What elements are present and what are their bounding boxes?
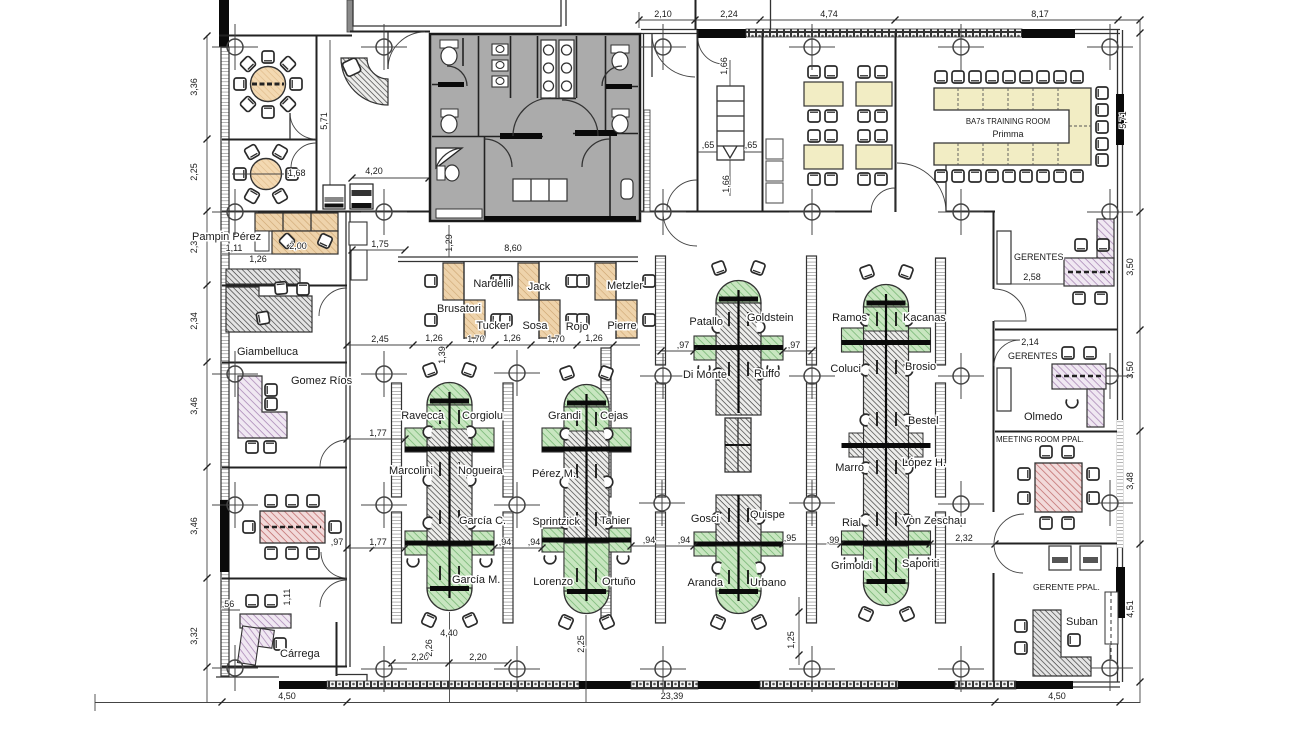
wall top of right block [641, 33, 1120, 35]
classroom side cabinets [766, 139, 783, 203]
dimension row cluster3 [658, 340, 816, 355]
svg-text:Metzler: Metzler [607, 280, 643, 292]
dimension 1,75 below reception [352, 249, 405, 251]
dimension 4,20 reception [352, 177, 429, 179]
svg-text:Corgiolu: Corgiolu [462, 410, 503, 422]
svg-text:Grandi: Grandi [548, 410, 581, 422]
svg-text:1,26: 1,26 [503, 333, 521, 343]
desk divider ticks clusters3-4 [729, 312, 748, 584]
svg-text:,95: ,95 [784, 533, 797, 543]
reception curved desk [341, 58, 388, 105]
door arc gerente ppal [994, 544, 1023, 573]
dimension line right [1118, 20, 1144, 703]
svg-text:4,51: 4,51 [1125, 600, 1135, 618]
svg-text:1,11: 1,11 [226, 243, 243, 253]
svg-text:Goldstein: Goldstein [747, 312, 793, 324]
reception chair [342, 57, 362, 77]
svg-text:Aranda: Aranda [688, 577, 724, 589]
bottom-left vestibule walls [336, 622, 338, 676]
room above bathroom (walls) [353, 0, 561, 26]
wall between round-table rooms [222, 139, 316, 141]
svg-text:,97: ,97 [677, 340, 690, 350]
svg-text:4,74: 4,74 [820, 9, 838, 19]
svg-text:Saporiti: Saporiti [902, 558, 939, 570]
svg-text:2,25: 2,25 [576, 635, 586, 653]
svg-text:Suban: Suban [1066, 616, 1098, 628]
svg-text:Jack: Jack [528, 281, 551, 293]
svg-text:Ruffo: Ruffo [754, 368, 780, 380]
svg-text:Urbano: Urbano [750, 577, 786, 589]
wall stub above reception [347, 0, 353, 32]
wall top of reception [350, 31, 430, 33]
wall right of round-table rooms [316, 35, 318, 211]
partition strip s4 [656, 256, 666, 623]
svg-text:,65: ,65 [745, 140, 758, 150]
svg-text:Rial: Rial [842, 517, 861, 529]
svg-text:1,70: 1,70 [467, 334, 485, 344]
wall cabinet room / classroom [762, 33, 764, 212]
svg-text:Sprintzick: Sprintzick [532, 516, 580, 528]
svg-text:1,70: 1,70 [547, 334, 565, 344]
svg-text:1,39: 1,39 [437, 346, 447, 364]
tan desk group C (Metzler/Rojo/Pierre) [577, 262, 655, 339]
toilet 4 [612, 109, 629, 133]
tan desk group A (Brusatori/Tucker) [425, 262, 503, 339]
door arc Gomez Rios [320, 440, 347, 467]
svg-text:,56: ,56 [222, 599, 235, 609]
svg-text:,65: ,65 [702, 140, 715, 150]
hall upper dimension double line 8,60 [398, 225, 638, 262]
office gerentes1 [997, 219, 1114, 304]
svg-text:2,45: 2,45 [371, 334, 389, 344]
partition strip s1 [392, 383, 402, 623]
classroom tables [804, 66, 892, 185]
svg-text:Lorenzo: Lorenzo [533, 576, 573, 588]
svg-text:Nogueira: Nogueira [458, 465, 504, 477]
door arc meeting room [994, 514, 1024, 544]
svg-text:Von Zeschau: Von Zeschau [902, 515, 966, 527]
wall right black segment bottom [1116, 567, 1125, 618]
partition strip s2 [503, 383, 513, 623]
svg-text:Ortuño: Ortuño [602, 576, 636, 588]
small toilet bottom-left [437, 165, 459, 181]
svg-text:Patallo: Patallo [689, 316, 723, 328]
bottom left strip [436, 209, 482, 218]
svg-text:Tucker: Tucker [476, 320, 510, 332]
svg-text:1,77: 1,77 [369, 428, 387, 438]
wall left black segment (pink room) [220, 500, 229, 572]
wall meeting/gerente ppal [995, 543, 1117, 545]
door arc room B top [291, 143, 316, 168]
svg-text:3,46: 3,46 [189, 517, 199, 535]
svg-text:Coluci: Coluci [830, 363, 861, 375]
dimension line bottom [95, 691, 1140, 711]
svg-text:Ramos: Ramos [832, 312, 867, 324]
meeting room ppal [996, 435, 1099, 529]
svg-text:1,26: 1,26 [585, 333, 603, 343]
svg-text:Quispe: Quispe [750, 509, 785, 521]
svg-text:8,17: 8,17 [1031, 9, 1049, 19]
svg-text:4,50: 4,50 [278, 691, 296, 701]
central cabinet pair [725, 418, 751, 472]
svg-text:,94: ,94 [678, 535, 691, 545]
office Giambelluca cabinets [226, 269, 300, 284]
svg-text:GERENTES: GERENTES [1014, 252, 1064, 262]
desk divider ticks cluster5 [877, 312, 896, 572]
svg-text:Olmedo: Olmedo [1024, 411, 1063, 423]
toilet 3 [611, 45, 629, 70]
dimension 1,77 row Gomez [344, 428, 409, 443]
svg-text:Pérez M.: Pérez M. [532, 468, 576, 480]
bottom counter [513, 179, 567, 201]
wall stubs above entry corridor [695, 0, 697, 30]
tan desk names [437, 278, 643, 333]
wall left exterior (ladder hatch) [221, 47, 229, 676]
svg-text:Rojo: Rojo [566, 321, 589, 333]
svg-text:5,71: 5,71 [1118, 111, 1128, 129]
wall bottom run [216, 676, 279, 678]
svg-text:Bestel: Bestel [908, 415, 939, 427]
wall left-offices right side [345, 211, 347, 667]
door arc corridor bottom [667, 180, 697, 210]
svg-text:García M.: García M. [452, 574, 500, 586]
dimension line top [636, 9, 1144, 28]
wall GomezRios/pink room [222, 467, 347, 469]
svg-text:2,20: 2,20 [469, 652, 487, 662]
svg-text:Cárrega: Cárrega [280, 648, 321, 660]
wall olmedo/meeting [995, 431, 1117, 433]
svg-text:GERENTES: GERENTES [1008, 351, 1058, 361]
toilet 1 [440, 40, 458, 65]
svg-text:2,10: 2,10 [654, 9, 672, 19]
door arc classroom [871, 188, 895, 212]
door arc Carrega [320, 580, 347, 607]
svg-text:3,48: 3,48 [1125, 472, 1135, 490]
door arc cabinet room [698, 38, 724, 64]
partition strip s3 [601, 348, 611, 623]
svg-text:Pampin Pérez: Pampin Pérez [192, 231, 261, 243]
svg-text:Gomez Ríos: Gomez Ríos [291, 375, 353, 387]
svg-text:Tahier: Tahier [600, 515, 630, 527]
bathroom bottom wall band [484, 216, 636, 221]
door arc entry corridor [652, 34, 695, 77]
svg-text:García C.: García C. [459, 515, 506, 527]
wall entry corridor left [643, 34, 645, 212]
svg-text:Primma: Primma [993, 129, 1024, 139]
svg-text:2,14: 2,14 [1021, 337, 1039, 347]
wall Pampin/Giambelluca [222, 285, 347, 287]
wall top-right black segment 1 [697, 29, 746, 38]
door arc pink room [321, 552, 347, 578]
svg-text:4,40: 4,40 [440, 628, 458, 638]
svg-text:,94: ,94 [528, 537, 541, 547]
wall right offices left side [993, 212, 995, 289]
svg-text:,94: ,94 [643, 535, 656, 545]
bottom right fixture [621, 179, 633, 199]
hall-side cabinets near Pampin [349, 222, 367, 245]
shower corner [436, 148, 462, 168]
pink meeting table room [243, 495, 341, 559]
dimension row mid hall [331, 533, 999, 552]
wall top-right black segment 2 [1022, 29, 1075, 38]
svg-text:4,50: 4,50 [1048, 691, 1066, 701]
svg-text:5,71: 5,71 [319, 112, 329, 130]
cabinet column room [698, 57, 762, 196]
door arc room A [290, 113, 316, 139]
svg-text:Di Monte: Di Monte [683, 369, 727, 381]
wall right exterior [1117, 30, 1119, 682]
svg-text:3,46: 3,46 [189, 397, 199, 415]
wall Carrega bottom [222, 666, 347, 668]
svg-text:Brusatori: Brusatori [437, 303, 481, 315]
cluster names [389, 312, 966, 589]
wire top-left thick wall segment [219, 0, 229, 47]
training room chairs right [1096, 87, 1108, 166]
svg-text:2,00: 2,00 [289, 241, 307, 251]
wall top of left block [219, 35, 352, 37]
desk divider ticks cluster2 [577, 412, 596, 582]
office olmedo [997, 337, 1106, 427]
svg-text:1,11: 1,11 [282, 589, 292, 606]
bathroom internal walls [432, 36, 638, 219]
svg-text:,97: ,97 [331, 537, 344, 547]
svg-text:1,26: 1,26 [425, 333, 443, 343]
svg-text:Cejas: Cejas [600, 410, 629, 422]
bathroom black wall bands [438, 82, 464, 87]
office gerente ppal [1015, 546, 1118, 676]
svg-text:1,25: 1,25 [786, 631, 796, 649]
desk cluster 3 [694, 260, 783, 415]
door arc olmedo [994, 340, 1020, 366]
svg-text:1,66: 1,66 [721, 175, 731, 193]
svg-text:Giambelluca: Giambelluca [237, 346, 299, 358]
svg-text:MEETING ROOM PPAL.: MEETING ROOM PPAL. [996, 435, 1084, 444]
grid markers [212, 24, 1133, 692]
svg-text:1,68: 1,68 [288, 168, 306, 178]
svg-text:2,26: 2,26 [424, 639, 434, 657]
svg-text:1,26: 1,26 [249, 254, 267, 264]
desk divider ticks cluster1 [440, 410, 459, 580]
training room chairs bottom [935, 170, 1083, 182]
office Gomez Rios desk [238, 376, 287, 438]
svg-text:,99: ,99 [827, 535, 840, 545]
door arc training room [897, 163, 946, 212]
wall classroom / training room [895, 33, 897, 212]
door arc gerentes1 [994, 289, 1026, 321]
svg-text:Marro: Marro [835, 462, 864, 474]
sink columns [541, 40, 574, 98]
desk cluster 1 [405, 362, 494, 628]
svg-text:Pierre: Pierre [607, 320, 636, 332]
svg-text:3,32: 3,32 [189, 627, 199, 645]
svg-text:,97: ,97 [788, 340, 801, 350]
svg-text:Grimoldi: Grimoldi [831, 560, 872, 572]
round table room A [234, 51, 302, 118]
wall right hatch segment [1117, 420, 1123, 548]
partition strip s5 [807, 256, 817, 623]
wall right black segment top [1116, 94, 1124, 145]
svg-text:Brosio: Brosio [905, 361, 936, 373]
wall top-right insulated band [746, 29, 1022, 37]
desk cluster 5 [842, 264, 931, 622]
door arc Giambelluca [319, 288, 347, 316]
desk cluster 2 [542, 365, 631, 630]
dimension 5,71 vertical (reception) [329, 40, 331, 208]
svg-text:1,66: 1,66 [719, 57, 729, 75]
round table room B [232, 144, 306, 204]
svg-text:Ravecca: Ravecca [401, 410, 445, 422]
wall corridor rows y212 [222, 211, 430, 213]
svg-text:1,75: 1,75 [371, 239, 389, 249]
wall entry corridor right / cabinet room left [697, 30, 699, 212]
training room U table [934, 88, 1091, 165]
wall pink room/Carrega [222, 578, 347, 580]
svg-text:3,50: 3,50 [1125, 258, 1135, 276]
svg-text:23,39: 23,39 [661, 691, 684, 701]
bathroom door arcs [447, 66, 622, 167]
reception cabinets (servers) [323, 184, 373, 209]
svg-text:8,60: 8,60 [504, 243, 522, 253]
svg-text:1,77: 1,77 [369, 537, 387, 547]
svg-text:2,24: 2,24 [720, 9, 738, 19]
toilet 2 [441, 109, 458, 133]
svg-text:3,36: 3,36 [189, 78, 199, 96]
svg-text:2,58: 2,58 [1023, 272, 1041, 282]
dimension line left [189, 33, 211, 704]
bathroom block base [430, 34, 640, 221]
svg-text:2,32: 2,32 [955, 533, 973, 543]
svg-text:Gosci: Gosci [691, 513, 719, 525]
dimension bottom cluster area [389, 597, 803, 702]
svg-text:2,34: 2,34 [189, 312, 199, 330]
svg-text:Sosa: Sosa [522, 320, 548, 332]
dimension line under tan desks [344, 333, 641, 364]
svg-text:López H.: López H. [902, 457, 946, 469]
svg-text:2,25: 2,25 [189, 163, 199, 181]
training room chairs top [935, 71, 1083, 83]
urinals column [492, 44, 508, 87]
office Pampin Perez desks [255, 213, 338, 254]
door arc reception top [388, 32, 425, 69]
wall gerentes1/olmedo [995, 329, 1117, 331]
svg-text:4,20: 4,20 [365, 166, 383, 176]
office Carrega desk [238, 595, 291, 667]
svg-text:Marcolini: Marcolini [389, 465, 433, 477]
partition strip s6 [936, 258, 946, 623]
svg-text:BA7s TRAINING ROOM: BA7s TRAINING ROOM [966, 117, 1050, 126]
office Giambelluca desk L [226, 287, 312, 332]
desk cluster 4 [694, 495, 783, 630]
svg-text:Nardelli: Nardelli [473, 278, 510, 290]
svg-text:,94: ,94 [499, 537, 512, 547]
wall right block bottom (corridor) y212 [641, 211, 872, 213]
wall Giambelluca/GomezRios [222, 362, 347, 364]
door arc hall entry corridor [663, 212, 697, 246]
svg-text:GERENTE PPAL.: GERENTE PPAL. [1033, 582, 1100, 592]
tan desk group B (Jack/Sosa) [500, 262, 578, 339]
svg-text:Kacanas: Kacanas [903, 312, 946, 324]
